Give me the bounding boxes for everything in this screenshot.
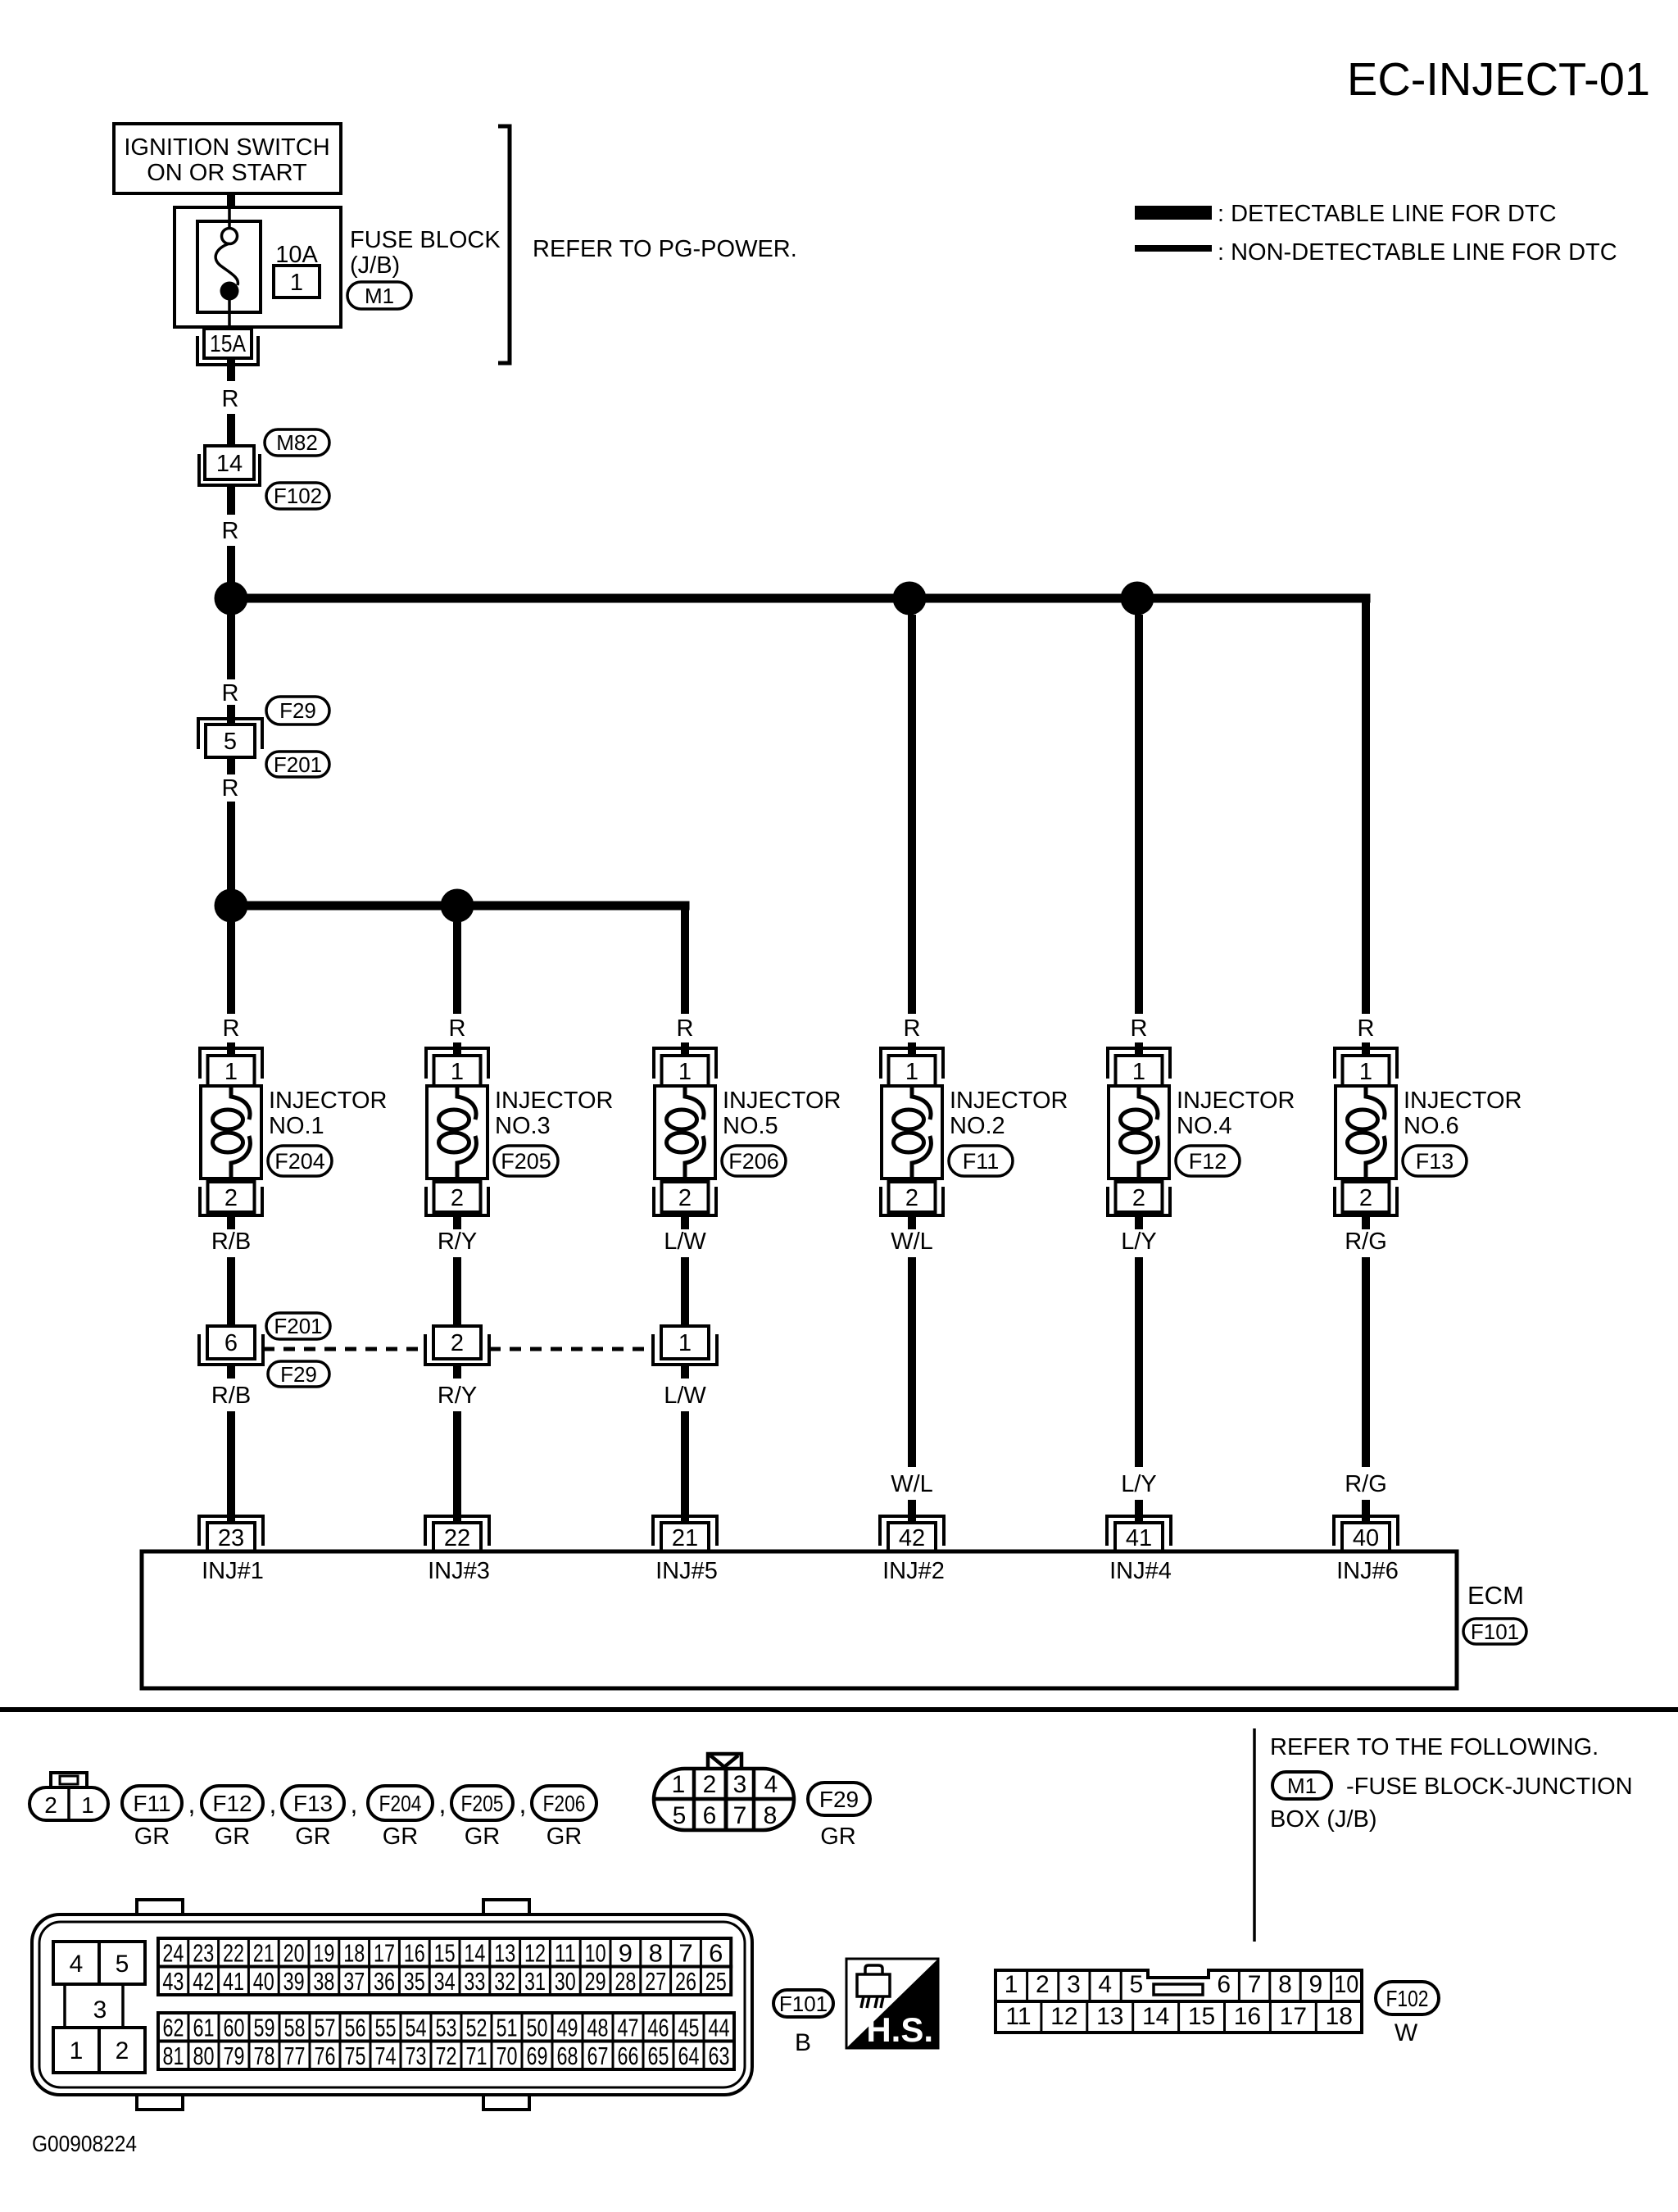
svg-text:2: 2	[703, 1771, 717, 1798]
svg-text:F29: F29	[279, 698, 316, 723]
svg-text:F205: F205	[461, 1791, 504, 1816]
svg-text:45: 45	[678, 2013, 700, 2042]
svg-text:INJECTOR: INJECTOR	[950, 1088, 1068, 1114]
svg-text:4: 4	[764, 1771, 778, 1798]
svg-text:GR: GR	[465, 1824, 501, 1850]
fuse symbol 10A fuse 1	[215, 207, 238, 329]
junction node injector NO.1 branch	[215, 889, 248, 923]
svg-text:G00908224: G00908224	[32, 2131, 137, 2156]
connector F29 face (8 pin)	[654, 1754, 794, 1830]
svg-text:,: ,	[188, 1789, 196, 1819]
svg-text:22: 22	[444, 1525, 470, 1551]
ECM terminal 40 (INJ#6)	[1334, 1516, 1398, 1546]
svg-text:10: 10	[585, 1938, 606, 1967]
svg-text:R: R	[449, 1015, 466, 1042]
svg-text:F29: F29	[819, 1787, 859, 1812]
svg-text:F11: F11	[133, 1791, 170, 1816]
svg-text:18: 18	[343, 1938, 365, 1967]
ECM face lower grid row 2 pins 81-63	[158, 2042, 734, 2070]
svg-text:(J/B): (J/B)	[350, 252, 400, 279]
ECM face cavity 2	[99, 2028, 145, 2073]
svg-text:29: 29	[585, 1967, 606, 1996]
svg-text:NO.1: NO.1	[269, 1113, 324, 1139]
svg-text:17: 17	[1280, 2003, 1307, 2030]
svg-text:15: 15	[434, 1938, 456, 1967]
svg-text:22: 22	[223, 1938, 244, 1967]
svg-text:R/G: R/G	[1345, 1471, 1387, 1497]
svg-text:M82: M82	[276, 430, 318, 455]
svg-text:69: 69	[527, 2042, 548, 2070]
connector F206 oval	[722, 1146, 786, 1176]
svg-text:74: 74	[375, 2042, 397, 2070]
svg-text:67: 67	[587, 2042, 609, 2070]
svg-text:NO.4: NO.4	[1177, 1113, 1232, 1139]
divider line bottom	[1253, 1728, 1256, 1942]
svg-text:35: 35	[404, 1967, 425, 1996]
svg-text:INJ#3: INJ#3	[428, 1558, 490, 1584]
svg-text:INJECTOR: INJECTOR	[723, 1088, 841, 1114]
svg-text:R: R	[677, 1015, 694, 1042]
ECM face cavity 3	[63, 1984, 66, 2028]
connector F11 oval	[949, 1146, 1013, 1176]
svg-text:1: 1	[290, 270, 303, 296]
wire L/Y from injector pin 2 column 5	[1135, 1215, 1143, 1229]
bracket refer to pg-power	[498, 126, 510, 363]
ECM terminal 22 (INJ#3)	[425, 1516, 489, 1546]
svg-text:2: 2	[1036, 1971, 1050, 1998]
svg-text:M1: M1	[365, 284, 394, 308]
svg-text:1: 1	[672, 1771, 686, 1798]
wire R/B from injector pin 2 column 1	[227, 1215, 235, 1229]
junction node injector NO.2 branch	[893, 582, 927, 615]
svg-text:21: 21	[253, 1938, 274, 1967]
svg-text:W/L: W/L	[891, 1229, 933, 1255]
svg-text:25: 25	[705, 1967, 727, 1996]
junction node injector NO.4 branch	[1121, 582, 1154, 615]
svg-text:GR: GR	[215, 1824, 251, 1850]
svg-text:6: 6	[1217, 1971, 1231, 1998]
svg-text:28: 28	[615, 1967, 636, 1996]
svg-text:18: 18	[1326, 2003, 1353, 2030]
svg-text:70: 70	[497, 2042, 518, 2070]
svg-text:H.S.: H.S.	[866, 2010, 933, 2049]
svg-text:8: 8	[649, 1938, 663, 1967]
svg-text:R: R	[222, 518, 239, 544]
svg-text:11: 11	[1005, 2003, 1031, 2030]
wire R/B connector to ECM column 1	[227, 1365, 235, 1379]
svg-text:4: 4	[1098, 1971, 1112, 1998]
connector F206 oval (GR)	[532, 1786, 596, 1820]
svg-text:2: 2	[1359, 1185, 1372, 1211]
svg-text:80: 80	[193, 2042, 215, 2070]
legend non-detectable line bar	[1135, 245, 1212, 252]
connector F29 oval	[268, 1361, 329, 1387]
svg-text:62: 62	[163, 2013, 184, 2042]
svg-text:GR: GR	[134, 1824, 170, 1850]
wire R connector 5 to lower junction	[227, 757, 235, 774]
svg-text:L/W: L/W	[664, 1383, 706, 1409]
ECM face cavity 1	[53, 2028, 99, 2073]
ECM face upper grid row 1 pins 24-6	[158, 1938, 731, 1967]
svg-text:42: 42	[193, 1967, 214, 1996]
wire R/G from injector pin 2 column 6	[1362, 1215, 1370, 1229]
svg-text:BOX (J/B): BOX (J/B)	[1270, 1806, 1377, 1833]
ECM connector face F101 outline	[32, 1900, 752, 2110]
svg-text:44: 44	[709, 2013, 730, 2042]
svg-text:F12: F12	[212, 1791, 252, 1816]
svg-text:31: 31	[524, 1967, 546, 1996]
svg-text:7: 7	[733, 1802, 747, 1829]
svg-text:5: 5	[673, 1802, 687, 1829]
wire R fuse to connector 14	[227, 358, 235, 381]
svg-text:1: 1	[1005, 1971, 1018, 1998]
connector F204 oval (GR)	[368, 1786, 433, 1820]
svg-text:72: 72	[436, 2042, 457, 2070]
svg-text:77: 77	[284, 2042, 306, 2070]
svg-text:59: 59	[254, 2013, 275, 2042]
svg-text:2: 2	[44, 1792, 57, 1818]
wire R feed to injector column 5	[1135, 615, 1143, 1014]
svg-text:19: 19	[313, 1938, 334, 1967]
svg-text:NO.5: NO.5	[723, 1113, 778, 1139]
F102 face slot	[1154, 1984, 1203, 1995]
svg-text:16: 16	[404, 1938, 425, 1967]
svg-text:2: 2	[1132, 1185, 1145, 1211]
svg-text:65: 65	[648, 2042, 669, 2070]
connector terminal 6 (F201/F29)	[207, 1326, 255, 1359]
svg-text:14: 14	[1142, 2003, 1169, 2030]
svg-text:F13: F13	[293, 1791, 333, 1816]
wire R feed to injector column 2	[453, 922, 461, 1014]
svg-text:16: 16	[1234, 2003, 1261, 2030]
wire ignition switch to fuse block	[227, 193, 235, 209]
svg-text:GR: GR	[820, 1824, 856, 1850]
svg-text:,: ,	[351, 1789, 358, 1819]
svg-text:6: 6	[224, 1330, 238, 1356]
connector F101 oval (B)	[773, 1990, 833, 2017]
ECM terminal 41 (INJ#4)	[1107, 1516, 1171, 1546]
svg-text:54: 54	[406, 2013, 427, 2042]
svg-text:REFER TO THE FOLLOWING.: REFER TO THE FOLLOWING.	[1270, 1734, 1599, 1760]
svg-text:12: 12	[524, 1938, 546, 1967]
svg-text:15A: 15A	[210, 331, 247, 357]
connector F29 oval	[266, 697, 329, 724]
svg-text:R: R	[222, 386, 239, 412]
svg-text:R: R	[222, 775, 239, 802]
svg-text:INJ#2: INJ#2	[882, 1558, 945, 1584]
svg-text:33: 33	[464, 1967, 485, 1996]
svg-text:1: 1	[1359, 1059, 1372, 1085]
svg-text:L/Y: L/Y	[1121, 1229, 1157, 1255]
svg-text:2: 2	[116, 2037, 129, 2064]
svg-text:6: 6	[709, 1938, 723, 1967]
svg-text:24: 24	[162, 1938, 184, 1967]
connector F204 oval	[268, 1146, 332, 1176]
svg-text:L/W: L/W	[664, 1229, 706, 1255]
svg-text:15: 15	[1188, 2003, 1215, 2030]
svg-text:,: ,	[439, 1789, 447, 1819]
svg-text:EC-INJECT-01: EC-INJECT-01	[1347, 53, 1650, 106]
wire L/W from injector pin 2 column 3	[681, 1215, 689, 1229]
wire lower distribution line	[231, 902, 690, 911]
svg-text:76: 76	[315, 2042, 336, 2070]
svg-text:IGNITION SWITCH: IGNITION SWITCH	[124, 134, 329, 161]
svg-text:FUSE BLOCK: FUSE BLOCK	[350, 227, 501, 253]
svg-text:2: 2	[451, 1330, 464, 1356]
wire R/Y injector to connector 2	[453, 1257, 461, 1328]
svg-text:NO.2: NO.2	[950, 1113, 1005, 1139]
svg-text:75: 75	[345, 2042, 366, 2070]
svg-text:,: ,	[519, 1789, 527, 1819]
wire R/Y connector to ECM column 2	[453, 1365, 461, 1379]
connector F29 oval (GR)	[808, 1783, 870, 1815]
svg-text:5: 5	[224, 729, 237, 755]
svg-text:27: 27	[645, 1967, 666, 1996]
svg-text:7: 7	[678, 1938, 692, 1967]
injector NO.4 F12	[1108, 1048, 1170, 1215]
injector NO.5 F206	[654, 1048, 716, 1215]
legend detectable line bar	[1135, 206, 1212, 220]
svg-text:14: 14	[216, 451, 243, 477]
connector F205 oval	[494, 1146, 558, 1176]
svg-text:9: 9	[619, 1938, 633, 1967]
injector NO.3 F205	[426, 1048, 488, 1215]
injector NO.2 F11	[881, 1048, 943, 1215]
svg-text:55: 55	[375, 2013, 397, 2042]
svg-text:F101: F101	[779, 1992, 828, 2016]
connector F102 face outline	[995, 1970, 1362, 2001]
wire W/L injector to ECM column 4	[908, 1257, 916, 1467]
svg-text:11: 11	[555, 1938, 576, 1967]
H.S. logo	[846, 1959, 938, 2049]
connector F12 oval	[1176, 1146, 1240, 1176]
svg-text:1: 1	[678, 1330, 692, 1356]
svg-text:R/Y: R/Y	[438, 1383, 477, 1409]
svg-text:23: 23	[193, 1938, 214, 1967]
svg-text:R/Y: R/Y	[438, 1229, 477, 1255]
svg-text:30: 30	[555, 1967, 576, 1996]
ECM terminal 23 (INJ#1)	[199, 1516, 263, 1546]
svg-text:F11: F11	[963, 1149, 1000, 1174]
svg-text:46: 46	[648, 2013, 669, 2042]
dashed connector link 2-1	[489, 1347, 653, 1351]
junction node injector NO.3 branch	[441, 889, 474, 923]
connector F201 oval	[266, 752, 329, 777]
wire W/L from injector pin 2 column 4	[908, 1215, 916, 1229]
svg-text:47: 47	[618, 2013, 639, 2042]
svg-text:F201: F201	[274, 1314, 322, 1338]
svg-text:INJECTOR: INJECTOR	[1177, 1088, 1295, 1114]
svg-text:17: 17	[374, 1938, 395, 1967]
svg-text:53: 53	[436, 2013, 457, 2042]
svg-text:42: 42	[899, 1525, 925, 1551]
svg-text:41: 41	[1126, 1525, 1152, 1551]
svg-text:1: 1	[905, 1059, 918, 1085]
connector F201 oval	[266, 1313, 330, 1339]
svg-text:7: 7	[1248, 1971, 1262, 1998]
svg-text:REFER TO PG-POWER.: REFER TO PG-POWER.	[533, 236, 797, 262]
svg-text:M1: M1	[1287, 1774, 1317, 1798]
svg-text:: NON-DETECTABLE LINE FOR DTC: : NON-DETECTABLE LINE FOR DTC	[1218, 239, 1617, 266]
svg-text:ECM: ECM	[1467, 1581, 1524, 1610]
svg-text:ON OR START: ON OR START	[147, 160, 307, 186]
wire R junction to connector 5	[227, 615, 235, 679]
svg-text:63: 63	[709, 2042, 730, 2070]
svg-text:71: 71	[466, 2042, 488, 2070]
svg-text:13: 13	[494, 1938, 515, 1967]
svg-text:R: R	[1131, 1015, 1148, 1042]
svg-text:1: 1	[81, 1792, 94, 1818]
svg-text:50: 50	[527, 2013, 548, 2042]
connector terminal 15A	[204, 329, 252, 358]
svg-text:B: B	[795, 2029, 811, 2056]
svg-text:R: R	[904, 1015, 921, 1042]
connector F101 oval	[1463, 1619, 1526, 1644]
svg-text:INJECTOR: INJECTOR	[495, 1088, 613, 1114]
svg-text:INJ#5: INJ#5	[655, 1558, 718, 1584]
fuse block (J/B) M1 box	[175, 207, 341, 327]
svg-text:14: 14	[464, 1938, 485, 1967]
ECM face cavity 4	[53, 1942, 99, 1984]
svg-text:: DETECTABLE LINE FOR DTC: : DETECTABLE LINE FOR DTC	[1218, 201, 1557, 227]
svg-text:R/G: R/G	[1345, 1229, 1387, 1255]
wire R feed to injector column 4	[908, 615, 916, 1014]
svg-text:57: 57	[315, 2013, 336, 2042]
svg-text:8: 8	[1278, 1971, 1292, 1998]
connector terminal 1 (F201/F29)	[661, 1326, 709, 1359]
svg-text:-FUSE BLOCK-JUNCTION: -FUSE BLOCK-JUNCTION	[1346, 1774, 1633, 1800]
svg-text:20: 20	[283, 1938, 305, 1967]
connector F13 oval	[1403, 1146, 1467, 1176]
svg-text:2: 2	[905, 1185, 918, 1211]
svg-text:5: 5	[1130, 1971, 1144, 1998]
svg-text:R/B: R/B	[211, 1383, 251, 1409]
svg-text:F206: F206	[728, 1149, 779, 1174]
svg-text:INJ#6: INJ#6	[1336, 1558, 1399, 1584]
svg-text:6: 6	[703, 1802, 717, 1829]
svg-text:INJ#1: INJ#1	[202, 1558, 264, 1584]
svg-text:1: 1	[1132, 1059, 1145, 1085]
svg-text:3: 3	[93, 1996, 107, 2024]
svg-text:F204: F204	[379, 1791, 422, 1816]
svg-text:21: 21	[672, 1525, 698, 1551]
svg-text:73: 73	[406, 2042, 427, 2070]
svg-text:F205: F205	[501, 1149, 551, 1174]
svg-text:48: 48	[587, 2013, 609, 2042]
svg-text:26: 26	[675, 1967, 696, 1996]
svg-text:78: 78	[254, 2042, 275, 2070]
connector terminal 5	[198, 719, 262, 749]
connector F102 oval	[266, 483, 329, 509]
ECM box F101	[142, 1551, 1457, 1688]
svg-text:68: 68	[557, 2042, 578, 2070]
svg-text:W: W	[1395, 2019, 1418, 2046]
svg-text:49: 49	[557, 2013, 578, 2042]
svg-text:GR: GR	[383, 1824, 419, 1850]
svg-text:F13: F13	[1416, 1149, 1454, 1174]
svg-text:61: 61	[193, 2013, 215, 2042]
connector terminal 14	[205, 446, 254, 479]
svg-text:,: ,	[270, 1789, 277, 1819]
svg-text:GR: GR	[546, 1824, 583, 1850]
svg-text:3: 3	[733, 1771, 747, 1798]
svg-text:43: 43	[162, 1967, 184, 1996]
svg-text:INJECTOR: INJECTOR	[1404, 1088, 1522, 1114]
svg-text:F29: F29	[280, 1362, 317, 1387]
svg-text:5: 5	[116, 1951, 129, 1978]
svg-text:79: 79	[224, 2042, 245, 2070]
svg-text:60: 60	[224, 2013, 245, 2042]
ECM face upper grid row 2 pins 43-25	[158, 1967, 731, 1996]
connector M1 oval	[347, 282, 411, 309]
wire L/W connector to ECM column 3	[681, 1365, 689, 1379]
svg-text:32: 32	[494, 1967, 515, 1996]
svg-text:56: 56	[345, 2013, 366, 2042]
svg-text:2: 2	[678, 1185, 692, 1211]
ECM terminal 42 (INJ#2)	[880, 1516, 944, 1546]
connector F11 oval (GR)	[122, 1786, 182, 1820]
svg-text:40: 40	[253, 1967, 274, 1996]
svg-text:F102: F102	[274, 484, 322, 508]
svg-text:37: 37	[343, 1967, 365, 1996]
dashed connector link 6-2	[263, 1347, 425, 1351]
svg-text:51: 51	[497, 2013, 518, 2042]
connector terminal 2 (F201/F29)	[433, 1326, 481, 1359]
junction node main feed	[215, 582, 248, 615]
svg-text:F206: F206	[543, 1791, 586, 1816]
svg-text:F204: F204	[274, 1149, 325, 1174]
ignition switch box	[114, 124, 341, 193]
svg-text:58: 58	[284, 2013, 306, 2042]
injector NO.6 F13	[1335, 1048, 1397, 1215]
connector M82 oval	[265, 429, 329, 456]
wire R/B injector to connector 6	[227, 1257, 235, 1328]
svg-text:NO.3: NO.3	[495, 1113, 551, 1139]
wire main distribution line	[231, 594, 1371, 603]
svg-text:1: 1	[678, 1059, 692, 1085]
wire L/Y injector to ECM column 5	[1135, 1257, 1143, 1467]
svg-text:R: R	[222, 680, 239, 706]
svg-text:1: 1	[70, 2037, 84, 2064]
wire R feed to injector column 3	[681, 902, 689, 1014]
svg-text:81: 81	[163, 2042, 184, 2070]
svg-text:1: 1	[224, 1059, 238, 1085]
wire L/W injector to connector 1	[681, 1257, 689, 1328]
svg-text:64: 64	[678, 2042, 700, 2070]
connector F102 oval (W)	[1376, 1982, 1439, 2014]
svg-text:10: 10	[1334, 1971, 1358, 1998]
svg-text:2: 2	[451, 1185, 464, 1211]
svg-text:66: 66	[618, 2042, 639, 2070]
connector F12 oval (GR)	[202, 1786, 263, 1820]
svg-text:39: 39	[283, 1967, 305, 1996]
svg-text:9: 9	[1309, 1971, 1323, 1998]
connector F13 oval (GR)	[282, 1786, 344, 1820]
svg-text:2: 2	[224, 1185, 238, 1211]
svg-text:R: R	[1358, 1015, 1375, 1042]
svg-text:NO.6: NO.6	[1404, 1113, 1459, 1139]
ECM terminal 21 (INJ#5)	[653, 1516, 717, 1546]
svg-text:L/Y: L/Y	[1121, 1471, 1157, 1497]
svg-text:F12: F12	[1189, 1149, 1227, 1174]
wire R/G injector to ECM column 6	[1362, 1257, 1370, 1467]
svg-text:12: 12	[1050, 2003, 1077, 2030]
svg-text:36: 36	[374, 1967, 395, 1996]
svg-text:F101: F101	[1471, 1619, 1519, 1644]
svg-text:GR: GR	[295, 1824, 331, 1850]
svg-text:40: 40	[1353, 1525, 1379, 1551]
separator line	[0, 1707, 1678, 1712]
